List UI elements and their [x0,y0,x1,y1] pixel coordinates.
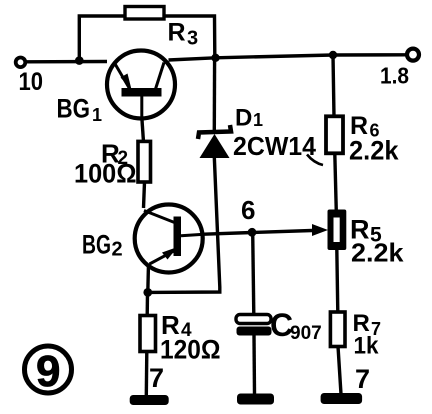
wire rail to R6 [333,55,334,117]
svg-text:2: 2 [112,239,123,261]
resistor R3 [125,7,164,20]
label D1 [235,105,263,132]
svg-text:120Ω: 120Ω [160,335,221,365]
ground (R4) [130,395,169,405]
transistor BG1 [107,51,175,120]
wire D1 cathode lead [213,58,217,130]
label 2.2k (R6) [349,136,399,166]
wire R4 to ground [145,352,149,397]
wire R2 to BG2 collector [144,182,145,208]
svg-text:7: 7 [355,364,370,394]
node rail R6 tap [329,51,337,59]
label BG1 [57,94,103,126]
wire BG1 base to R2 [142,117,144,142]
resistor R7 [330,312,345,347]
svg-text:2.2k: 2.2k [349,136,399,166]
svg-text:1: 1 [92,105,102,125]
svg-text:2.2k: 2.2k [351,238,404,268]
label 100ohm [74,159,137,189]
wire node 6 to C907 [253,233,254,316]
node 6 [248,228,257,237]
resistor R4 [140,316,156,352]
svg-text:100Ω: 100Ω [74,159,137,189]
label 2CW14 [233,131,323,165]
node BG2 emitter junction [143,288,152,297]
label BG2 [82,230,123,261]
label 1.8 [380,63,409,89]
label 7 pin (R4 ground) [149,363,164,393]
svg-text:3: 3 [187,28,198,50]
wire input rail [26,60,107,64]
svg-text:BG: BG [57,94,91,124]
wire to R4 [145,293,149,317]
label 6 [241,195,255,225]
label 10 [19,68,44,96]
wire R5 to R7 [337,248,338,313]
label R5 [350,215,382,247]
capacitor C907 [236,315,272,336]
wire BG2 base to node 6 to R5 wiper [204,224,328,236]
figure number 9 [25,346,72,396]
svg-text:907: 907 [290,323,322,344]
svg-text:9: 9 [36,347,60,396]
wire D1 anode down and left to emitter node [148,157,220,292]
wire BG2 emitter down [146,264,150,293]
wire R7 to ground [338,347,341,395]
svg-text:7: 7 [149,363,164,393]
potentiometer R5 [328,210,347,251]
wire R6 to R5 [335,154,337,213]
svg-text:1: 1 [253,110,263,130]
svg-text:R: R [168,19,186,47]
label 7 pin (R7 ground) [355,364,370,394]
ground (C907) [237,394,274,405]
wire output rail [169,55,407,60]
svg-text:D: D [235,105,252,132]
resistor R6 [326,116,343,153]
label R7 [353,310,382,339]
label R4 [161,310,192,341]
terminal output (right) [407,49,419,61]
label 1k [354,333,380,360]
label 120ohm [160,335,221,365]
wire to R3 left [79,16,125,61]
svg-text:2CW14: 2CW14 [233,131,317,161]
transistor BG2 [135,205,204,273]
label R2 [101,139,128,170]
resistor R2 [138,141,151,182]
node rail D1 tap [211,54,219,62]
label C907 [270,307,322,344]
svg-text:1k: 1k [354,333,380,360]
terminal input (left) [16,58,26,68]
label R6 [350,112,380,141]
label R3 [168,19,199,50]
svg-text:BG: BG [82,230,111,260]
svg-text:10: 10 [19,68,44,96]
wire C907 to ground [252,336,256,395]
node junction R3 left tap [75,56,84,65]
wire R3 right to rail [164,16,215,56]
diode D1 zener [198,125,231,158]
svg-text:1.8: 1.8 [380,63,409,89]
label 2.2k (R5) [351,238,404,268]
svg-text:6: 6 [241,195,255,225]
ground (R7) [321,393,363,404]
